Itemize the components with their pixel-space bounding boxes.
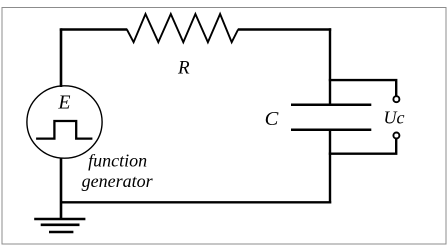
wire top-left segment — [61, 28, 127, 29]
wire right vertical lower — [329, 130, 331, 204]
wire right vertical upper — [329, 28, 331, 104]
wire bottom horizontal — [61, 201, 331, 203]
ground — [34, 218, 85, 221]
capacitor C top plate — [291, 103, 371, 106]
wire left vertical to generator — [60, 28, 63, 87]
lower terminal — [393, 133, 399, 139]
pulse waveform symbol — [36, 121, 92, 139]
upper terminal — [393, 96, 399, 102]
wire generator bottom vertical — [60, 158, 63, 220]
wire branch from lower terminal — [329, 139, 396, 154]
function generator E circle — [27, 86, 102, 158]
resistor R1 zigzag — [127, 14, 238, 42]
svg-text:E: E — [57, 92, 70, 114]
svg-text:C: C — [265, 108, 279, 130]
svg-text:generator: generator — [82, 171, 154, 191]
wire top-right segment — [238, 28, 331, 30]
wire branch to upper terminal — [329, 80, 396, 96]
capacitor C bottom plate — [291, 128, 371, 131]
svg-text:function: function — [88, 151, 147, 171]
svg-text:Uc: Uc — [384, 108, 405, 128]
svg-text:R: R — [177, 57, 190, 78]
